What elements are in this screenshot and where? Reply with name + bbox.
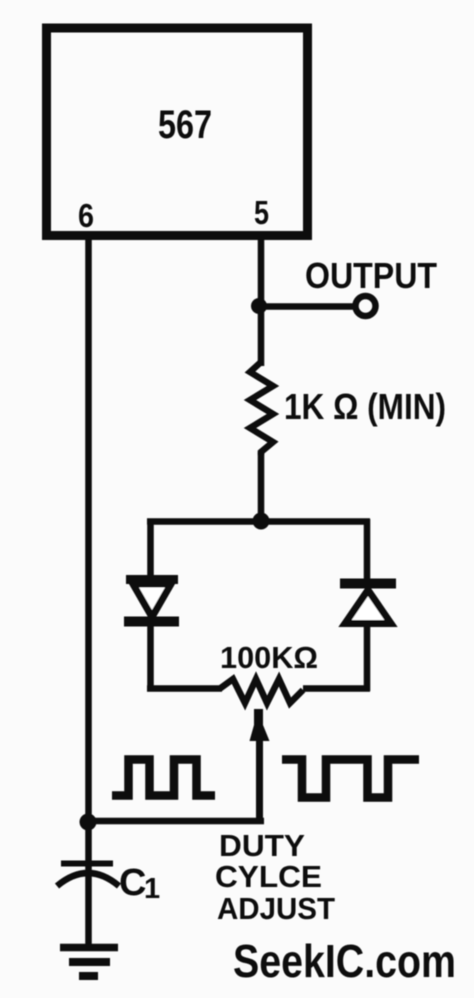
node output junction xyxy=(251,298,267,314)
wire loop bottom right segment xyxy=(303,685,370,692)
wire R1 to loop top xyxy=(258,452,265,522)
resistor R1 zigzag xyxy=(250,362,273,455)
ground symbol xyxy=(60,948,118,977)
svg-text:1: 1 xyxy=(144,873,160,905)
label OUTPUT xyxy=(305,255,437,296)
wire loop right lower xyxy=(364,627,371,691)
svg-text:5: 5 xyxy=(254,194,269,231)
wire pin 5 down to resistor R1 xyxy=(258,240,265,366)
svg-text:6: 6 xyxy=(78,197,94,234)
wire loop right upper xyxy=(364,519,371,583)
label 1K Ohm (MIN) xyxy=(284,386,446,427)
svg-text:1K Ω (MIN): 1K Ω (MIN) xyxy=(284,386,446,427)
svg-text:SeekIC.com: SeekIC.com xyxy=(233,935,456,987)
watermark SeekIC.com xyxy=(233,935,456,987)
wire loop left lower xyxy=(147,626,154,691)
svg-text:ADJUST: ADJUST xyxy=(217,891,335,926)
wire loop left upper xyxy=(147,519,154,578)
wiper arrow xyxy=(250,709,270,821)
svg-text:CYLCE: CYLCE xyxy=(215,859,322,894)
pin 5 label xyxy=(254,194,269,231)
wire pin 6 down to C1 node xyxy=(85,240,92,822)
capacitor C1 xyxy=(57,864,119,887)
svg-text:C: C xyxy=(119,862,146,904)
label DUTY CYLCE ADJUST xyxy=(215,828,335,926)
output terminal open circle xyxy=(356,296,376,316)
label C1 xyxy=(119,862,160,905)
pin 6 label xyxy=(78,197,94,234)
waveform icon right (narrow low pulses) xyxy=(282,760,419,798)
node loop top junction xyxy=(253,513,270,530)
wire to output terminal xyxy=(259,303,355,310)
label 100K Ohm xyxy=(220,640,318,675)
IC U1 567 box xyxy=(47,28,308,236)
svg-text:OUTPUT: OUTPUT xyxy=(305,255,437,296)
waveform icon left (narrow high pulses) xyxy=(112,760,215,796)
node C1 junction xyxy=(80,814,97,831)
svg-text:DUTY: DUTY xyxy=(219,828,305,863)
wire loop top edge xyxy=(147,518,370,525)
diode D1 (left, anode up) xyxy=(124,580,179,622)
wire node to ground xyxy=(85,821,92,947)
wire loop bottom left segment xyxy=(147,685,222,692)
potentiometer R2 zigzag xyxy=(220,679,303,703)
diode D2 (right, anode down) xyxy=(340,584,396,624)
wire from C1 node to wiper stem xyxy=(86,818,264,825)
svg-text:100KΩ: 100KΩ xyxy=(220,640,318,675)
IC value label 567 xyxy=(158,103,212,147)
svg-text:567: 567 xyxy=(158,103,212,147)
